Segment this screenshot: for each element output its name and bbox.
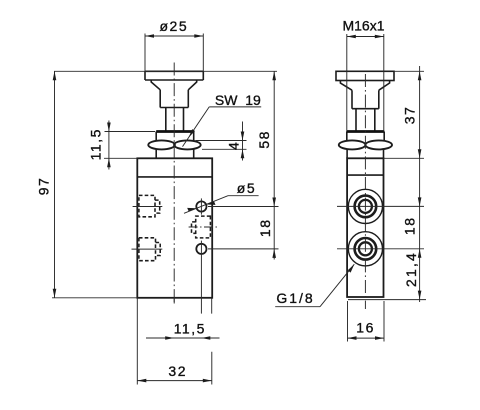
- arrow leader G18: [348, 264, 355, 272]
- svg-text:SW 19: SW 19: [215, 92, 261, 108]
- arrow 16 right: [375, 336, 384, 340]
- button stem front: [166, 108, 184, 132]
- nut ellipse left side: [339, 140, 366, 149]
- arrow leader o5 outer: [206, 202, 215, 205]
- dim 32 line: [137, 380, 212, 382]
- svg-text:18: 18: [257, 219, 273, 238]
- port upper thread circle side: [355, 196, 377, 218]
- nut sides side: [347, 132, 384, 159]
- dim M16x1 line: [347, 36, 384, 38]
- svg-text:16: 16: [356, 319, 375, 335]
- arrow 11.5 upper down: [107, 123, 111, 132]
- port lower thread circle side: [355, 238, 377, 260]
- nut sides front: [156, 132, 194, 159]
- button taper side: [340, 81, 389, 91]
- svg-text:G1/8: G1/8: [276, 290, 314, 306]
- dim 21.4 bottom extension: [348, 299, 426, 301]
- svg-text:97: 97: [35, 177, 51, 196]
- dim 4 line: [242, 122, 244, 161]
- dim 11.5 upper extension line: [105, 131, 156, 133]
- svg-text:18: 18: [402, 217, 418, 236]
- hole circle upper front: [196, 201, 206, 211]
- svg-text:4: 4: [225, 141, 241, 150]
- arrow 37 bottom: [418, 149, 422, 158]
- centerline port upper side: [337, 205, 424, 207]
- svg-text:ø5: ø5: [237, 180, 257, 196]
- leader SW19 line: [183, 107, 210, 147]
- arrow leader o5 inner: [187, 208, 196, 211]
- dim o25 extension lines: [145, 34, 203, 72]
- dim 58-18 line: [273, 71, 275, 259]
- body collar line front: [137, 176, 212, 178]
- arrow 97 top: [53, 71, 57, 80]
- leader o5 line: [184, 196, 228, 214]
- leader G18 line: [320, 264, 354, 307]
- svg-text:11,5: 11,5: [174, 320, 206, 336]
- arrow o25 left: [145, 34, 154, 38]
- button cap side: [336, 71, 394, 80]
- hidden port lower-left front: [139, 238, 160, 261]
- svg-text:37: 37: [402, 106, 418, 125]
- crosshair hole upper front: [200, 198, 202, 214]
- button taper front: [151, 80, 197, 90]
- valve body side: [347, 158, 383, 297]
- hidden port upper-left front: [139, 195, 160, 216]
- hidden port middle-right front: [192, 216, 211, 238]
- arrow 11.5 bottom left: [165, 336, 174, 340]
- centerline port lower side: [337, 248, 424, 250]
- arrow 21.4 bottom: [418, 291, 422, 300]
- arrow o25 right: [194, 34, 203, 38]
- dim 97 bottom extension line: [52, 297, 137, 299]
- dim 11.5 bottom extension lines: [174, 298, 212, 313]
- dim 32 extension lines: [137, 298, 212, 384]
- arrow 18 right bottom: [418, 249, 422, 258]
- svg-text:M16x1: M16x1: [342, 18, 384, 34]
- body collar line side: [347, 174, 383, 176]
- leader SW19 shelf: [209, 106, 261, 108]
- button cap front: [145, 71, 203, 80]
- nut top edge bold side: [347, 130, 384, 133]
- arrow 32 right: [203, 379, 212, 383]
- arrow 16 left: [348, 336, 357, 340]
- leader G18 shelf: [275, 306, 320, 308]
- dim 11.5 upper line: [108, 121, 110, 170]
- leader o5 shelf: [228, 195, 259, 197]
- arrow leader SW19: [189, 129, 195, 137]
- svg-text:58: 58: [256, 130, 272, 149]
- port lower bore circle side: [359, 242, 372, 255]
- arrow 18 bottom: [272, 249, 276, 258]
- dim 16 line: [348, 337, 385, 339]
- dim 97 line: [54, 71, 56, 297]
- arrow 97 bottom: [53, 289, 57, 298]
- dim 16 extension lines: [348, 301, 385, 342]
- dim 97 top extension line: [54, 70, 277, 72]
- button skirt front: [160, 90, 188, 108]
- nut ellipse right front: [174, 140, 201, 149]
- button skirt side: [352, 90, 379, 109]
- centerline vertical front: [173, 63, 175, 305]
- arrow M16 left: [347, 35, 356, 39]
- dim 37 bottom extension: [384, 157, 425, 159]
- dim 11.5 bottom line: [146, 337, 220, 339]
- nut ellipse right side: [365, 140, 392, 149]
- dim o25 line: [145, 35, 203, 37]
- centerline port middle front: [189, 226, 218, 228]
- svg-text:21,4: 21,4: [403, 251, 419, 287]
- centerline port upper-left front: [133, 206, 163, 208]
- arrow 32 left: [137, 379, 146, 383]
- arrow M16 right: [375, 35, 384, 39]
- dim 37-18-21.4 line: [419, 66, 421, 302]
- svg-text:ø25: ø25: [159, 18, 188, 34]
- dim 37 top extension: [394, 70, 424, 72]
- arrow 58 top: [272, 71, 276, 80]
- dim 11.5 upper body-top extension: [104, 157, 137, 159]
- dim 58-18 extension lines: [208, 207, 279, 249]
- button stem side: [356, 109, 375, 132]
- port upper outer circle side: [348, 189, 382, 223]
- arrow 4 down: [241, 132, 245, 141]
- valve body front: [137, 158, 212, 297]
- dim 4 extension lines: [196, 141, 247, 150]
- centerline port lower-left front: [132, 248, 163, 250]
- nut ellipse left front: [148, 140, 175, 149]
- crosshair hole lower front: [200, 241, 202, 314]
- arrow 58-18 middle: [272, 198, 276, 207]
- arrow 18 right top: [418, 197, 422, 206]
- svg-text:32: 32: [168, 363, 187, 379]
- hole circle lower front: [196, 244, 206, 254]
- arrow 11.5 bottom right: [201, 336, 210, 340]
- dim M16x1 extension lines: [347, 34, 384, 132]
- nut top edge bold front: [156, 130, 194, 133]
- centerline vertical side: [364, 74, 366, 309]
- port upper bore circle side: [359, 200, 372, 213]
- port lower outer circle side: [348, 232, 382, 266]
- arrow 37 top: [418, 71, 422, 80]
- arrow 4 up: [241, 149, 245, 158]
- arrow 11.5 upper up: [107, 158, 111, 167]
- svg-text:11,5: 11,5: [88, 128, 104, 160]
